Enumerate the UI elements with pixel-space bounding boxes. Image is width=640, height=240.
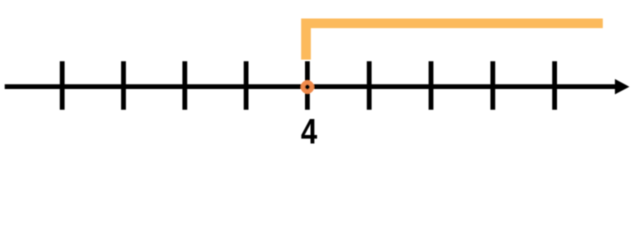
tick 3 [182, 61, 187, 110]
tick 1 [60, 61, 65, 110]
tick 4 [244, 61, 249, 110]
tick 2 [121, 61, 126, 110]
highlighted ray (orange elbow) [306, 23, 603, 59]
arrowhead [615, 79, 630, 94]
label 4 [301, 112, 317, 151]
tick 9 [552, 61, 557, 110]
number line [5, 84, 618, 89]
svg-text:4: 4 [301, 112, 317, 149]
tick 5 (point 4) [305, 61, 310, 110]
open circle at 4 [303, 82, 312, 91]
tick 7 [429, 61, 434, 110]
tick 8 [490, 61, 495, 110]
tick 6 [367, 61, 372, 110]
